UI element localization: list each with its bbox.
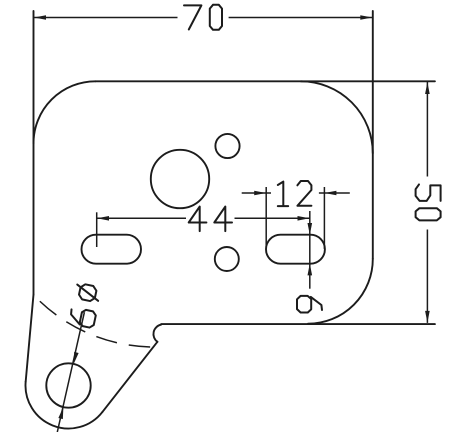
dim 12 right stub line	[319, 192, 350, 194]
arrowhead dim 70 left	[34, 15, 46, 20]
dim 70 line left segment	[34, 17, 178, 19]
outline top-left corner arc R62	[34, 81, 96, 143]
arrowhead dim 6 top	[308, 223, 313, 235]
arrowhead dim 12 right	[324, 191, 336, 196]
arrowhead dim 44 left	[97, 216, 109, 221]
text dim 12	[278, 182, 288, 207]
text dim 6 rotated	[297, 296, 322, 313]
arrowhead leader upper	[74, 352, 79, 364]
dim 44 right extension / dim 6 line	[309, 211, 311, 289]
dim 12 left extension line	[265, 187, 267, 249]
text dim 70	[184, 5, 201, 29]
hole right slot	[266, 235, 325, 264]
outline tab end arc R43	[25, 382, 102, 429]
hole left slot	[82, 235, 142, 264]
outline bottom edge (also extension line of dim 50)	[161, 323, 435, 325]
arrowhead dim 44 right	[298, 216, 310, 221]
arrowhead dim 50 top	[425, 82, 430, 94]
arrowhead dim 50 bottom	[425, 311, 430, 323]
outline bottom-right corner arc R65	[308, 259, 373, 324]
dim 50 line lower segment	[426, 230, 428, 323]
dim 44 left extension line	[96, 212, 98, 247]
dim 70 line right segment	[229, 17, 373, 19]
arrowhead leader lower	[58, 407, 63, 419]
dim 44 line right segment	[235, 217, 310, 219]
dim 12 left stub line	[242, 192, 271, 194]
dim 12 right extension line	[323, 187, 325, 249]
text dia 6 label rotated	[69, 307, 97, 328]
arrowhead dim 6 bottom	[308, 263, 313, 275]
dim 44 line left segment	[97, 217, 186, 219]
bend line dashed arc	[34, 295, 154, 347]
outline top-right corner arc R72	[301, 81, 373, 153]
outline tab left edge	[26, 295, 34, 382]
arrowhead dim 70 right	[360, 15, 372, 20]
hole large circle	[151, 150, 209, 208]
arrowhead dim 12 left	[254, 191, 266, 196]
outline left edge (also extension line of dim 70)	[33, 11, 35, 295]
leader line of dia 6 label	[57, 312, 84, 432]
hole tab circle dia 6	[46, 363, 90, 407]
dim 50 line upper segment	[426, 82, 428, 177]
text dim 50 rotated	[416, 184, 441, 201]
outline top edge (also extension line of dim 50)	[96, 80, 435, 82]
hole small circle upper	[215, 134, 239, 158]
text dim 44	[189, 207, 207, 232]
outline relief notch arc	[153, 325, 161, 342]
hole small circle lower	[215, 247, 239, 271]
outline tab right edge	[102, 342, 157, 412]
outline right edge (also extension line of dim 70)	[372, 11, 374, 259]
